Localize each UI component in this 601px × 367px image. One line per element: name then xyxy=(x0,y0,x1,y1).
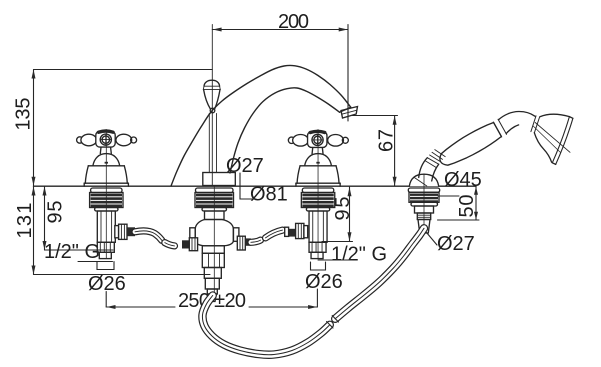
hose right connector nut 1 xyxy=(237,236,245,250)
hose left connector: port xyxy=(115,226,119,238)
leader Ø27 shower xyxy=(427,233,438,246)
right valve below deck xyxy=(301,188,334,259)
svg-text:135: 135 xyxy=(13,98,35,131)
hose left flexible section xyxy=(135,231,175,246)
deck line xyxy=(34,185,477,187)
hose right connector nut 2 xyxy=(296,223,304,238)
shower neck xyxy=(499,111,535,119)
left handle bell xyxy=(84,154,128,187)
main shower hose lower segment xyxy=(202,296,329,355)
spout end cap xyxy=(340,107,351,112)
svg-text:131: 131 xyxy=(14,203,36,239)
leader Ø45 xyxy=(438,195,459,197)
leader 1/2" G left xyxy=(78,261,113,263)
svg-text:200: 200 xyxy=(278,11,309,33)
hose right ferrule 2 xyxy=(289,229,296,237)
shower grip collar 1 xyxy=(432,152,443,159)
right handle bell xyxy=(296,154,340,187)
dimension 50 xyxy=(438,187,480,221)
svg-text:1/2" G: 1/2" G xyxy=(331,244,387,266)
spout aerator xyxy=(341,107,358,119)
shower fitting centerline xyxy=(423,175,425,233)
svg-text:67: 67 xyxy=(376,129,398,152)
svg-text:95: 95 xyxy=(45,201,67,224)
right valve centerline xyxy=(317,130,319,259)
dimension 131 xyxy=(14,187,210,275)
bracket Ø26 left xyxy=(97,262,114,270)
svg-text:Ø26: Ø26 xyxy=(88,273,126,295)
hose right port xyxy=(304,226,308,238)
shower bracket dome xyxy=(409,174,438,186)
hose left connector ferrule 2 xyxy=(182,240,189,248)
hose break caps xyxy=(327,322,333,329)
dimension 95 left xyxy=(43,187,114,251)
right handle cross head xyxy=(288,131,348,147)
spout base box xyxy=(203,173,236,186)
svg-text:1/2" G: 1/2" G xyxy=(44,241,100,263)
hose right collar xyxy=(285,227,289,236)
shower grip collar 2 xyxy=(493,122,501,137)
shower head collar xyxy=(531,116,536,132)
main shower hose upper segment xyxy=(335,228,424,318)
svg-text:Ø27: Ø27 xyxy=(437,233,475,255)
shower grip xyxy=(440,123,501,166)
leader 1/2" G right xyxy=(318,259,352,261)
leader Ø81 xyxy=(240,173,256,199)
center tee below deck xyxy=(190,188,239,302)
bracket Ø26 right xyxy=(311,262,326,270)
left valve below deck xyxy=(90,188,123,259)
left handle cross head xyxy=(77,131,137,147)
hose right connector ferrule 1 xyxy=(245,238,251,245)
hose right flexible section xyxy=(251,230,283,242)
spout inner curve xyxy=(230,88,340,173)
hose left connector nut 2 xyxy=(189,238,197,251)
svg-text:50: 50 xyxy=(456,195,478,218)
svg-text:Ø45: Ø45 xyxy=(444,169,482,191)
dimension 200 xyxy=(212,11,348,186)
shower fitting below deck xyxy=(408,188,439,233)
diverter lever xyxy=(203,80,220,113)
shower bracket elbow xyxy=(415,155,441,186)
hose left connector: hex nut xyxy=(119,224,127,239)
center tee centerline xyxy=(213,187,215,297)
dimension 250 ±20 xyxy=(106,289,317,312)
dimension 135 xyxy=(13,70,213,186)
hose left connector: ferrule xyxy=(127,227,135,236)
spout stem lines xyxy=(208,114,210,173)
spout outer curve xyxy=(171,65,351,186)
left valve centerline xyxy=(105,130,107,259)
svg-text:Ø81: Ø81 xyxy=(250,184,288,206)
shower head seam xyxy=(535,123,570,153)
dimension 95 right xyxy=(322,187,354,242)
svg-text:Ø26: Ø26 xyxy=(305,271,343,293)
shower head cone xyxy=(540,114,570,117)
right handle neck xyxy=(312,148,323,154)
dimension 67 xyxy=(352,116,398,187)
shower head rim xyxy=(552,117,569,163)
left handle neck xyxy=(100,147,111,153)
